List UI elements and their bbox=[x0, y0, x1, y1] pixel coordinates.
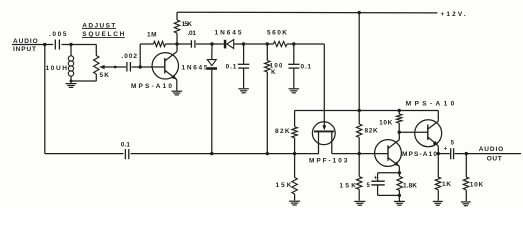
potentiometer R1 5K adjust squelch bbox=[95, 45, 97, 56]
capacitor C1 .005 bbox=[54, 40, 56, 50]
node filter node 1 bbox=[242, 42, 245, 45]
node mid rail left junction bbox=[358, 109, 361, 112]
ground 15K first bbox=[289, 200, 300, 202]
ground 15K second bbox=[354, 200, 365, 202]
resistor R8 82K second bbox=[358, 111, 360, 125]
svg-text:.01: .01 bbox=[188, 30, 197, 37]
resistor R2 1M bbox=[154, 41, 166, 46]
svg-text:1K: 1K bbox=[442, 181, 451, 188]
wire Q3 base wire bbox=[399, 131, 428, 133]
node gate node bbox=[292, 42, 295, 45]
ground 1K bbox=[433, 200, 443, 202]
wire coil top lead bbox=[70, 45, 72, 57]
svg-text:0.1: 0.1 bbox=[121, 141, 131, 148]
capacitor C8 5uF output bbox=[450, 148, 452, 159]
svg-text:AUDIO: AUDIO bbox=[479, 146, 504, 153]
node 82K/15K junction bbox=[293, 152, 296, 155]
node diode drop junction bbox=[210, 152, 213, 155]
ground 1.8K bbox=[398, 195, 400, 201]
svg-text:15K: 15K bbox=[339, 182, 356, 189]
capacitor C3 .01 bbox=[190, 40, 192, 48]
wire 560K to gate corner bbox=[287, 43, 324, 45]
svg-text:15K: 15K bbox=[276, 182, 292, 189]
svg-text:1M: 1M bbox=[147, 31, 157, 38]
svg-text:+: + bbox=[444, 147, 448, 153]
wire rail drop bbox=[358, 13, 360, 111]
resistor R6 82K first bbox=[294, 111, 296, 127]
wire emitter to output cap bbox=[438, 153, 450, 155]
svg-text:10K: 10K bbox=[379, 119, 392, 126]
resistor R4 560K bbox=[274, 41, 288, 46]
capacitor C7 5uF emitter bypass bbox=[378, 172, 400, 174]
node collector node Q1 bbox=[175, 42, 178, 45]
capacitor C5 0.1 second bbox=[293, 44, 295, 64]
svg-text:82K: 82K bbox=[275, 128, 290, 135]
svg-text:5K: 5K bbox=[100, 72, 110, 79]
node Q2 base junction bbox=[358, 152, 361, 155]
wire bottom bus to JFET bbox=[131, 153, 319, 155]
wire diode to 560K bbox=[234, 43, 274, 45]
diode D2 1N645 vertical bbox=[211, 44, 213, 59]
resistor R12 1K bbox=[437, 154, 439, 177]
svg-text:MPS-A10: MPS-A10 bbox=[402, 151, 437, 158]
wire output line bbox=[455, 153, 521, 155]
inductor L1 10UH bbox=[68, 56, 73, 61]
capacitor C4 0.1 first bbox=[243, 44, 245, 64]
transistor Q3 MPS-A10 bbox=[415, 120, 442, 147]
node mid rail 10K junction bbox=[398, 109, 401, 112]
node Q2 collector / Q3 base junction bbox=[398, 131, 401, 134]
capacitor C2 .002 bbox=[126, 62, 128, 72]
wire coil bottom to ground and pot bottom bbox=[70, 77, 72, 83]
capacitor C6 0.1 bottom bbox=[124, 149, 126, 159]
svg-text:0.1: 0.1 bbox=[226, 63, 237, 70]
svg-text:0.1: 0.1 bbox=[301, 64, 312, 71]
node input junction bbox=[43, 43, 46, 46]
ground 10K bbox=[461, 201, 471, 203]
node output junction bbox=[465, 152, 468, 155]
node detector node bbox=[210, 42, 213, 45]
wiper arrow of pot bbox=[99, 65, 104, 69]
wire gate drop from 560K node bbox=[323, 44, 325, 126]
transistor Q2 MPS-A10 bbox=[375, 140, 402, 167]
svg-text:10UH: 10UH bbox=[46, 65, 68, 72]
node Q2 emitter bottom junction bbox=[398, 194, 401, 197]
wire feedback riser to 1M bbox=[139, 44, 141, 67]
ground coil/pot bbox=[66, 83, 77, 85]
node base junction bbox=[139, 65, 142, 68]
svg-text:OUT: OUT bbox=[487, 155, 502, 162]
svg-text:82K: 82K bbox=[365, 127, 378, 134]
resistor R7 15K first bbox=[294, 154, 296, 178]
wire audio input line bbox=[12, 44, 53, 46]
svg-text:+: + bbox=[374, 175, 378, 181]
wire .01 to diode node bbox=[196, 43, 224, 45]
node filter node 2 bbox=[266, 42, 269, 45]
wire input drop to bottom bus bbox=[44, 45, 46, 154]
wire +12V rail bbox=[177, 11, 437, 14]
resistor R5 100K bbox=[266, 44, 268, 61]
wire Q2 base wire bbox=[359, 153, 388, 155]
transistor Q1 MPS-A10 bbox=[152, 53, 178, 79]
svg-text:560K: 560K bbox=[267, 29, 287, 36]
ground C4 bbox=[238, 88, 249, 90]
svg-text:K: K bbox=[271, 70, 276, 76]
resistor R13 10K output bbox=[465, 154, 467, 177]
svg-text:1.8K: 1.8K bbox=[403, 182, 417, 189]
ground Q1 emitter bbox=[172, 90, 183, 92]
wire mid rail corner to Q3 collector bbox=[437, 111, 439, 122]
resistor R11 1.8K bbox=[398, 173, 400, 177]
node Q2 emitter junction bbox=[398, 171, 401, 174]
node Q3 emitter junction bbox=[437, 152, 440, 155]
diode D1 1N645 horizontal bbox=[224, 40, 227, 49]
ground C5 bbox=[289, 88, 300, 90]
svg-text:.005: .005 bbox=[49, 31, 67, 38]
resistor R9 15K second bbox=[358, 154, 360, 177]
node coil junction bbox=[69, 43, 72, 46]
wire 1M to collector node bbox=[166, 43, 192, 45]
wire input node to pot bbox=[62, 44, 97, 46]
svg-text:INPUT: INPUT bbox=[13, 46, 36, 53]
wire cap to Q1 base bbox=[132, 66, 165, 68]
svg-text:15K: 15K bbox=[182, 21, 193, 28]
svg-text:.002: .002 bbox=[122, 53, 138, 60]
resistor R3 15K collector load bbox=[176, 12, 178, 20]
resistor R10 10K interstage bbox=[398, 111, 400, 115]
node 100K bottom junction bbox=[266, 152, 269, 155]
svg-text:100: 100 bbox=[270, 64, 283, 70]
transistor U1 MPF-103 JFET bbox=[312, 122, 335, 145]
wire mid rail bbox=[295, 110, 439, 112]
svg-text:10K: 10K bbox=[470, 181, 484, 188]
